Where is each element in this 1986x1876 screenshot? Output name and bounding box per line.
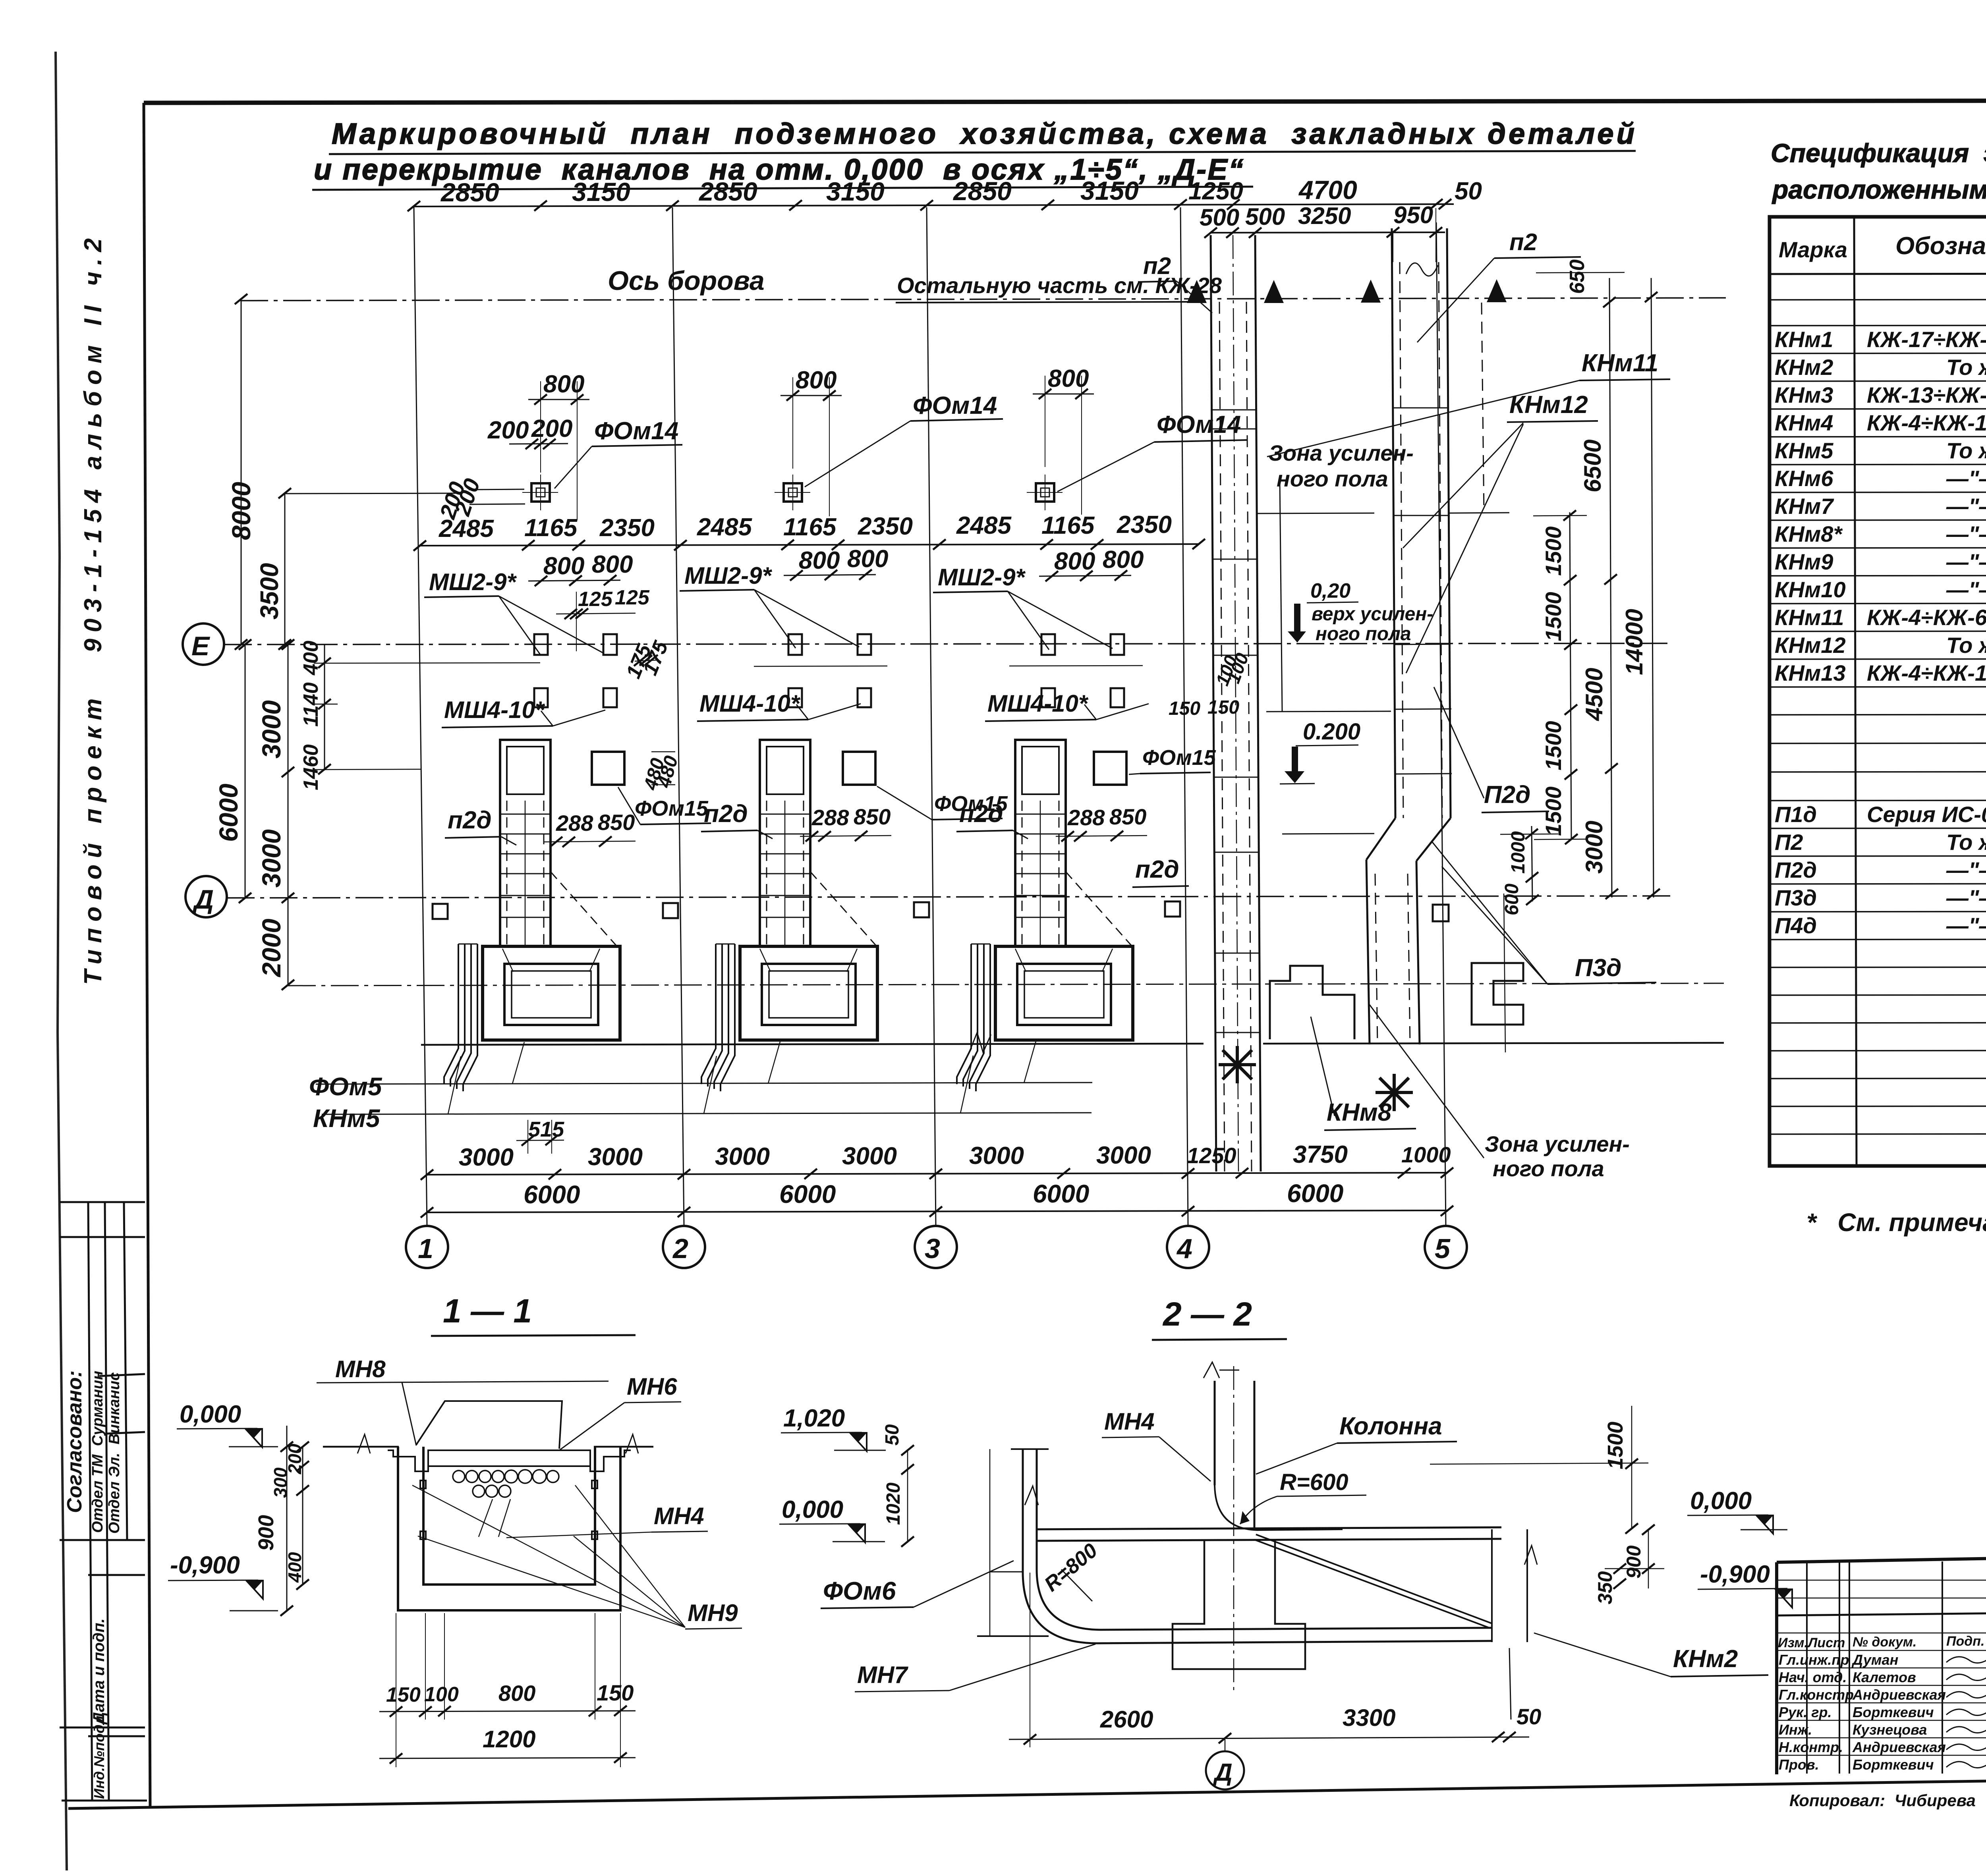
elevation 0.000 left: [779, 1496, 885, 1542]
svg-text:КЖ-4÷КЖ-12: КЖ-4÷КЖ-12: [1867, 410, 1986, 435]
Ось борова axis line: [240, 298, 1726, 301]
svg-text:То же: То же: [1946, 633, 1986, 658]
svg-text:1020: 1020: [883, 1482, 904, 1525]
svg-text:1200: 1200: [483, 1726, 535, 1752]
svg-text:МН9: МН9: [688, 1600, 738, 1626]
pedestal foundation: [1173, 1541, 1305, 1669]
svg-text:ного пола: ного пола: [1316, 623, 1411, 645]
svg-text:Дата и подп.: Дата и подп.: [90, 1618, 108, 1725]
svg-text:R=600: R=600: [1280, 1469, 1348, 1495]
dim 650 top right: [1536, 259, 1625, 294]
svg-text:3000: 3000: [969, 1142, 1024, 1170]
section 2-2 title: [1152, 1295, 1287, 1340]
svg-text:Андриевская: Андриевская: [1852, 1687, 1946, 1703]
КНм2 label: [1534, 1633, 1768, 1677]
right 1500 chain section 2-2: [1430, 1406, 1648, 1534]
svg-text:50: 50: [882, 1424, 903, 1446]
svg-text:Отдел Эл. Винканис: Отдел Эл. Винканис: [106, 1372, 123, 1534]
dimension row 3000s: [421, 1141, 1453, 1180]
svg-text:1: 1: [418, 1233, 433, 1264]
svg-text:2485: 2485: [956, 512, 1012, 539]
svg-text:500: 500: [1245, 203, 1285, 230]
axis circle 3: [915, 1226, 957, 1268]
anchor marks in pit walls: [420, 1480, 597, 1539]
svg-text:Инд.№подл.: Инд.№подл.: [91, 1712, 107, 1799]
right dim chain 1500s: [1533, 510, 1587, 844]
svg-text:Нач. отд.: Нач. отд.: [1779, 1669, 1847, 1685]
МН4 label section 2-2: [1102, 1408, 1211, 1481]
svg-text:2850: 2850: [698, 177, 757, 206]
axis Д line: [227, 896, 1672, 898]
svg-text:Колонна: Колонна: [1339, 1413, 1442, 1440]
label п2д bay1: [445, 807, 516, 845]
svg-text:2 — 2: 2 — 2: [1162, 1295, 1252, 1333]
svg-text:2485: 2485: [439, 515, 494, 542]
svg-text:МШ4-10*: МШ4-10*: [444, 697, 545, 723]
plates on axis Д: [433, 904, 448, 919]
svg-text:Обозначение: Обозначение: [1895, 232, 1986, 260]
svg-text:2350: 2350: [1117, 511, 1172, 538]
R=600 label with arrow: [1240, 1469, 1366, 1524]
svg-text:4: 4: [1176, 1233, 1192, 1264]
svg-text:КЖ-17÷КЖ-20: КЖ-17÷КЖ-20: [1867, 327, 1986, 352]
svg-text:КЖ-13÷КЖ-15: КЖ-13÷КЖ-15: [1867, 382, 1986, 407]
svg-text:МШ2-9*: МШ2-9*: [429, 569, 517, 595]
svg-text:п2д: п2д: [1135, 856, 1179, 883]
svg-text:Пров.: Пров.: [1779, 1756, 1819, 1773]
svg-text:КНм5: КНм5: [1775, 438, 1833, 463]
svg-text:Изм.Лист: Изм.Лист: [1778, 1635, 1845, 1650]
svg-text:Марка: Марка: [1779, 237, 1847, 262]
stepped element near channel A bottom (КНм8): [1270, 966, 1354, 1039]
svg-text:№ докум.: № докум.: [1853, 1635, 1916, 1650]
svg-text:ного пола: ного пола: [1493, 1156, 1604, 1181]
svg-text:Гл.констр: Гл.констр: [1779, 1687, 1854, 1703]
svg-text:—"—: —"—: [1946, 577, 1986, 602]
svg-text:1000: 1000: [1508, 831, 1529, 874]
label МН4 section1: [506, 1503, 708, 1538]
footing centre dash-dot line: [288, 983, 1724, 986]
svg-text:515: 515: [528, 1117, 564, 1141]
svg-text:1250: 1250: [1187, 1143, 1236, 1168]
svg-text:1500: 1500: [1541, 526, 1566, 576]
svg-text:КЖ-4÷КЖ-12: КЖ-4÷КЖ-12: [1867, 660, 1986, 685]
svg-text:ного пола: ного пола: [1277, 466, 1388, 491]
dimension chain 400 1140 1460: [299, 641, 540, 790]
margin stamp cells: [60, 1202, 147, 1801]
svg-text:КНм6: КНм6: [1775, 466, 1833, 491]
ФОм14 square column base 2: [775, 475, 810, 510]
ФОм15 square bay1: [592, 752, 624, 785]
svg-text:0,000: 0,000: [782, 1496, 843, 1523]
svg-text:4700: 4700: [1298, 175, 1357, 205]
svg-text:Серия ИС-01-04 Вып.2: Серия ИС-01-04 Вып.2: [1867, 802, 1986, 827]
svg-text:КНм12: КНм12: [1775, 633, 1846, 658]
svg-text:То же: То же: [1946, 438, 1986, 463]
label п2д bay4 right: [1132, 856, 1189, 887]
pit walls inner: [423, 1447, 595, 1585]
svg-text:1500: 1500: [1541, 786, 1566, 836]
svg-text:6500: 6500: [1579, 440, 1606, 492]
dim 900 350 right rotated: [1594, 1525, 1664, 1604]
side stub right of channel B: [1482, 303, 1484, 512]
axis circle Е: [183, 623, 224, 665]
svg-text:100: 100: [424, 1683, 459, 1706]
svg-text:800: 800: [543, 552, 584, 580]
pit walls outer: [398, 1447, 620, 1610]
table grid: [1770, 217, 1986, 1166]
svg-text:288: 288: [556, 811, 593, 836]
svg-text:ФОм14: ФОм14: [1157, 411, 1241, 438]
svg-text:Рук. гр.: Рук. гр.: [1779, 1704, 1832, 1720]
ФОм14 square column base 1: [522, 475, 558, 510]
svg-text:П2д: П2д: [1484, 781, 1530, 809]
ground line left of pit: [323, 1446, 399, 1448]
svg-text:КНм2: КНм2: [1775, 355, 1833, 380]
svg-text:—"—: —"—: [1946, 913, 1986, 938]
svg-text:0.200: 0.200: [1303, 719, 1360, 745]
svg-text:3000: 3000: [1096, 1142, 1151, 1169]
svg-text:Зона усилен-: Зона усилен-: [1485, 1131, 1630, 1156]
svg-text:—"—: —"—: [1946, 466, 1986, 491]
axis circle Д: [185, 876, 227, 917]
svg-text:125: 125: [578, 588, 613, 611]
svg-text:2350: 2350: [858, 513, 913, 540]
svg-text:Маркировочный план подземног: Маркировочный план подземного хозяйства,…: [332, 117, 1634, 150]
section1 bottom dims: [379, 1613, 636, 1767]
МШ plates on axis Е bay1: [534, 634, 617, 655]
svg-text:Согласовано:: Согласовано:: [63, 1370, 86, 1513]
svg-text:КЖ-4÷КЖ-6, КЖ-29: КЖ-4÷КЖ-6, КЖ-29: [1867, 605, 1986, 630]
svg-text:1165: 1165: [783, 513, 837, 541]
dimension chain 3000+3000: [257, 639, 294, 903]
svg-text:Инж.: Инж.: [1779, 1722, 1812, 1738]
section1 left depth chain: [254, 1426, 309, 1616]
svg-text:п2: п2: [1143, 253, 1171, 279]
svg-text:3000: 3000: [715, 1143, 770, 1170]
svg-text:П1д: П1д: [1775, 802, 1817, 827]
svg-text:2850: 2850: [952, 176, 1012, 206]
svg-text:50: 50: [1455, 178, 1482, 205]
sheet frame top: [144, 100, 1986, 103]
svg-text:Зона усилен-: Зона усилен-: [1269, 440, 1414, 465]
svg-text:КНм11: КНм11: [1775, 605, 1844, 630]
pit top slab with rebate: [388, 1450, 631, 1471]
sheet frame bottom: [68, 1773, 1986, 1808]
svg-text:2: 2: [672, 1233, 688, 1264]
svg-text:150: 150: [1169, 698, 1200, 719]
svg-text:-0,900: -0,900: [170, 1552, 240, 1579]
svg-text:125: 125: [615, 586, 650, 609]
reinforced floor zone boundary top: [1257, 481, 1391, 834]
right dim chain 14000: [1621, 278, 1660, 899]
svg-text:1250: 1250: [1188, 178, 1243, 205]
label ФОм15 bay2: [877, 786, 1008, 820]
boiler foundation footing bay1: [483, 946, 620, 1040]
dimension row 2485 1165 2350: [413, 511, 1205, 551]
axis Д circle section 2-2: [1206, 1739, 1244, 1789]
svg-text:3150: 3150: [572, 177, 630, 207]
svg-text:1000: 1000: [1401, 1142, 1451, 1167]
svg-text:8000: 8000: [226, 482, 256, 540]
svg-text:6000: 6000: [779, 1180, 836, 1208]
svg-text:То же: То же: [1946, 830, 1986, 855]
svg-text:Думан: Думан: [1851, 1652, 1899, 1668]
ФОм14 square column base 3: [1027, 475, 1063, 510]
sheet frame left: [144, 103, 150, 1808]
svg-text:КНм7: КНм7: [1775, 494, 1834, 519]
elevation 0.000 left: [177, 1401, 278, 1447]
svg-text:Борткевич: Борткевич: [1853, 1756, 1934, 1773]
label КНм11 with leader: [1267, 349, 1670, 457]
svg-text:ФОм15: ФОм15: [1142, 746, 1216, 770]
svg-text:КНм9: КНм9: [1775, 549, 1833, 574]
dim 800 800 bay1: [528, 551, 633, 586]
svg-text:П4д: П4д: [1775, 913, 1817, 938]
svg-text:150: 150: [1207, 697, 1239, 718]
svg-text:Кузнецова: Кузнецова: [1853, 1722, 1927, 1738]
svg-text:Н.контр.: Н.контр.: [1779, 1739, 1843, 1755]
svg-text:3000: 3000: [1581, 821, 1607, 874]
svg-text:Копировал: Чибирева: Копировал: Чибирева: [1789, 1791, 1976, 1810]
svg-text:150: 150: [386, 1683, 421, 1706]
channel КНм vertical B at axis 5: [1366, 228, 1452, 1044]
svg-text:КНм11: КНм11: [1582, 349, 1658, 377]
svg-text:0,20: 0,20: [1310, 579, 1350, 602]
svg-text:Борткевич: Борткевич: [1853, 1704, 1934, 1720]
svg-text:КНм13: КНм13: [1775, 660, 1846, 685]
svg-text:Отдел ТМ Сурманин: Отдел ТМ Сурманин: [89, 1371, 106, 1533]
label ФОм14 bay3: [1057, 411, 1247, 492]
svg-text:1165: 1165: [524, 514, 578, 542]
dim 288 850 bay1: [544, 810, 636, 847]
svg-text:800: 800: [592, 551, 633, 578]
svg-text:6000: 6000: [524, 1180, 580, 1209]
svg-text:—"—: —"—: [1946, 521, 1986, 546]
dim 1020 rotated left: [883, 1450, 914, 1547]
small element near axis 5 bottom: [1472, 963, 1523, 1025]
svg-text:3500: 3500: [255, 563, 284, 620]
label КНм8 with leader: [1311, 1017, 1416, 1130]
ФОм6 label: [821, 1561, 1014, 1608]
svg-text:Подп.: Подп.: [1946, 1634, 1984, 1649]
svg-text:2000: 2000: [257, 919, 286, 978]
svg-text:1500: 1500: [1541, 721, 1566, 770]
Колонна label: [1256, 1413, 1457, 1474]
label ФОм14 bay2: [805, 392, 1003, 487]
svg-text:1 — 1: 1 — 1: [443, 1292, 532, 1330]
svg-text:п2д: п2д: [448, 807, 492, 834]
dimension chain 2000 below Д: [257, 898, 294, 990]
svg-text:—"—: —"—: [1946, 885, 1986, 910]
svg-text:расположенным на листах КЖ-4÷6: расположенным на листах КЖ-4÷6: [1772, 175, 1986, 204]
svg-text:Андриевская: Андриевская: [1852, 1739, 1946, 1755]
hatch star patch 1: [1219, 1046, 1256, 1083]
svg-text:650: 650: [1566, 259, 1589, 294]
right dim chain 6500 4500 3000: [1579, 278, 1618, 899]
extension verticals from dim row2 to channel tops: [1210, 235, 1211, 302]
axis circle 5: [1425, 1226, 1467, 1268]
column section 2-2: [1204, 1362, 1343, 1530]
dimension row 6000s: [421, 1179, 1453, 1218]
svg-text:1165: 1165: [1041, 512, 1095, 539]
svg-text:6000: 6000: [1033, 1179, 1089, 1208]
svg-text:3000: 3000: [459, 1144, 514, 1171]
L-channel КНм5 bay1: [444, 944, 477, 1091]
svg-text:850: 850: [598, 810, 635, 835]
ground line right of pit: [594, 1446, 653, 1448]
svg-text:КНм10: КНм10: [1775, 577, 1846, 602]
dim 515: [516, 1117, 564, 1154]
label П2д right side with leader: [1434, 687, 1549, 813]
elevation 0.000 right: [1687, 1487, 1787, 1534]
svg-text:6000: 6000: [1287, 1179, 1343, 1208]
svg-text:0,000: 0,000: [1690, 1487, 1752, 1515]
svg-text:Ось борова: Ось борова: [608, 266, 765, 296]
svg-text:600: 600: [1501, 884, 1522, 915]
label п2 left with leader: [1138, 253, 1212, 313]
svg-text:3150: 3150: [1080, 176, 1139, 205]
grid axis line 3: [927, 207, 936, 1226]
elevation 1.020 left: [781, 1405, 886, 1451]
grid axis line 5: [1436, 222, 1446, 1226]
channel КНм vertical A between axes 4-5: [1211, 235, 1261, 1172]
svg-text:ФОм6: ФОм6: [823, 1577, 896, 1605]
svg-text:1,020: 1,020: [783, 1405, 845, 1432]
pipe circles row1: [453, 1470, 559, 1497]
svg-text:—"—: —"—: [1946, 494, 1986, 519]
filled triangles on осъ борова: [1187, 280, 1207, 303]
svg-text:МН7: МН7: [857, 1662, 908, 1688]
svg-text:3750: 3750: [1293, 1141, 1348, 1168]
svg-text:ФОм14: ФОм14: [594, 417, 678, 445]
svg-text:3300: 3300: [1343, 1704, 1395, 1731]
svg-text:2850: 2850: [440, 178, 499, 207]
label П3д with leaders: [1432, 841, 1656, 984]
svg-text:0,000: 0,000: [180, 1401, 241, 1428]
axis circle 4: [1167, 1226, 1209, 1268]
svg-text:3250: 3250: [1298, 203, 1351, 229]
svg-text:14000: 14000: [1621, 609, 1648, 675]
dimension chain 8000 (left): [226, 294, 256, 650]
ФОм6 base tick: [990, 1571, 1023, 1573]
svg-text:3: 3: [925, 1233, 940, 1264]
svg-text:-0,900: -0,900: [1700, 1561, 1770, 1588]
svg-text:800: 800: [498, 1681, 535, 1706]
label КНм5 with leader line: [313, 1056, 1092, 1133]
КНм2 channel end: [1492, 1529, 1537, 1720]
svg-text:900: 900: [1623, 1545, 1645, 1579]
svg-text:—"—: —"—: [1946, 857, 1986, 882]
elevation 0.20 верх усиленного пола: [1288, 579, 1433, 645]
dimension chain 3500: [255, 488, 291, 650]
svg-text:1500: 1500: [1603, 1422, 1627, 1469]
svg-text:п2: п2: [1509, 229, 1537, 255]
МШ4-10 plates row bay1: [534, 688, 617, 707]
label ФОм14 bay1: [554, 417, 682, 488]
svg-text:3150: 3150: [826, 177, 885, 206]
svg-text:150: 150: [597, 1680, 634, 1705]
svg-text:КНм2: КНм2: [1673, 1645, 1738, 1673]
svg-text:—"—: —"—: [1946, 549, 1986, 574]
bend of channel B to lower left: [1366, 818, 1395, 860]
PLAN: top dimension row 2: [1200, 202, 1445, 238]
scan edge left: [56, 52, 67, 1870]
svg-text:200: 200: [531, 415, 572, 442]
svg-text:6000: 6000: [214, 784, 243, 842]
svg-text:МН4: МН4: [1104, 1408, 1155, 1435]
МН7 label: [855, 1644, 1095, 1692]
svg-text:То же: То же: [1946, 355, 1986, 380]
svg-text:50: 50: [1517, 1704, 1541, 1729]
svg-text:КНм3: КНм3: [1775, 382, 1833, 407]
elevation -0.900 right: [1698, 1561, 1792, 1608]
svg-text:Остальную часть см. КЖ-28: Остальную часть см. КЖ-28: [897, 273, 1222, 298]
column with ladder bay1: [500, 740, 618, 948]
svg-text:МН6: МН6: [627, 1373, 677, 1400]
svg-text:4500: 4500: [1581, 668, 1607, 721]
svg-text:3000: 3000: [588, 1143, 643, 1171]
slab parallelogram above pit: [416, 1401, 562, 1449]
label МН8: [317, 1356, 609, 1446]
label ФОм5 with leader line: [309, 1041, 1092, 1101]
svg-text:КНм12: КНм12: [1509, 391, 1588, 419]
svg-text:Д: Д: [192, 884, 214, 915]
label ФОм15 bay3 right: [1129, 746, 1216, 774]
svg-text:3000: 3000: [257, 829, 286, 888]
svg-text:Гл.инж.пр: Гл.инж.пр: [1779, 1652, 1849, 1668]
axis Е line: [224, 643, 1672, 645]
dim chain 1000 600 near Д: [1500, 826, 1558, 915]
svg-text:2485: 2485: [697, 513, 752, 541]
svg-text:П3д: П3д: [1575, 954, 1621, 982]
svg-text:5: 5: [1435, 1233, 1451, 1264]
label МН9 with fan leaders: [412, 1485, 742, 1629]
floor edge line: [421, 1044, 1204, 1045]
svg-text:200: 200: [487, 417, 529, 444]
svg-text:верх усилен-: верх усилен-: [1312, 604, 1433, 625]
svg-text:500: 500: [1200, 204, 1239, 231]
svg-text:П2д: П2д: [1775, 857, 1817, 882]
svg-text:КНм1: КНм1: [1775, 327, 1833, 352]
svg-text:3000: 3000: [257, 700, 286, 759]
svg-text:900: 900: [254, 1515, 278, 1551]
elevation 0.200: [1280, 719, 1360, 784]
svg-text:Д: Д: [1213, 1759, 1233, 1786]
svg-text:2600: 2600: [1100, 1706, 1153, 1733]
column axis dash-dot: [1233, 1366, 1234, 1692]
svg-text:КНм4: КНм4: [1775, 410, 1833, 435]
label Зона усиленного пола bottom with leader: [1370, 1005, 1630, 1181]
svg-text:Е: Е: [191, 631, 211, 661]
svg-text:1500: 1500: [1541, 592, 1566, 641]
svg-text:ФОм15: ФОм15: [635, 797, 709, 820]
grid axis line 2: [672, 207, 684, 1226]
svg-text:300: 300: [270, 1467, 291, 1498]
elevation -0.900 left: [168, 1552, 278, 1611]
svg-text:МН8: МН8: [335, 1356, 386, 1382]
svg-text:П2: П2: [1775, 830, 1803, 855]
svg-text:КНм5: КНм5: [313, 1104, 381, 1133]
svg-text:2350: 2350: [599, 514, 655, 542]
label КНм12 with leaders: [1403, 391, 1598, 673]
ФОм6 wall with curve: [1023, 1449, 1493, 1643]
grid axis line 4: [1180, 207, 1188, 1226]
svg-text:* См. примечание на л. КЖ-7.: * См. примечание на л. КЖ-7.: [1806, 1208, 1986, 1237]
grid axis line 1: [414, 207, 427, 1226]
svg-text:КНм8*: КНм8*: [1775, 521, 1843, 546]
horizontal line through ФОм14 row: [285, 493, 461, 494]
